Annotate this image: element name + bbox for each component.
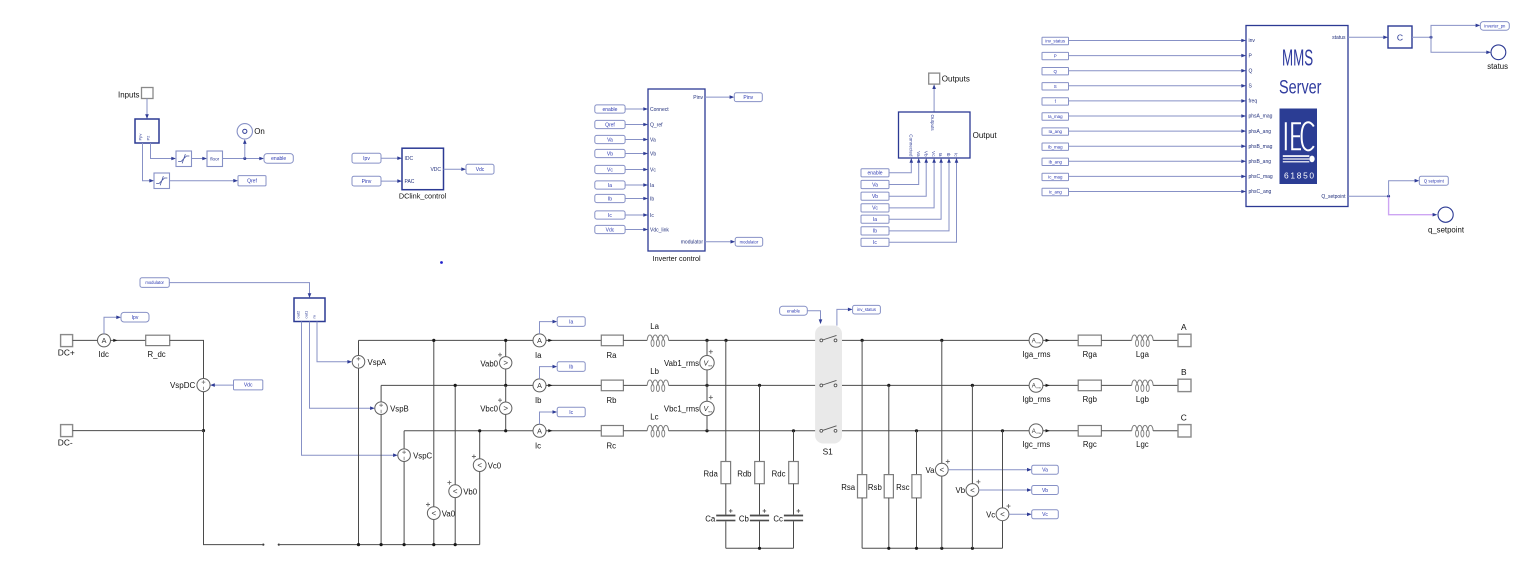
ammeter Ib <box>533 379 546 392</box>
svg-text:Vc: Vc <box>1042 512 1048 518</box>
svg-text:enable: enable <box>867 171 882 177</box>
svg-text:P: P <box>1054 54 1057 59</box>
wire VspC to phase bus <box>403 431 405 449</box>
wire Vb to inverter pin Vb <box>625 153 644 155</box>
node Vc measure tag <box>1032 510 1059 519</box>
svg-text:Rsb: Rsb <box>868 483 883 492</box>
svg-text:rms: rms <box>1036 386 1041 390</box>
terminal C <box>1178 425 1191 437</box>
wire phase A bus <box>359 339 534 341</box>
svg-text:<: < <box>970 486 975 495</box>
svg-text:modulator: modulator <box>681 240 704 246</box>
svg-text:Igb_rms: Igb_rms <box>1022 395 1050 404</box>
wire Va to Output pin <box>889 161 919 184</box>
svg-text:Inverter control: Inverter control <box>653 254 701 263</box>
node Ipv input tag <box>352 153 381 163</box>
wire Va meter to Va tag <box>948 469 1028 471</box>
svg-text:Q setpoint: Q setpoint <box>1424 178 1445 183</box>
svg-text:Va: Va <box>607 137 613 143</box>
svg-text:Lb: Lb <box>650 367 659 376</box>
wire Ia to Ra <box>546 339 601 341</box>
wire Qref to inverter pin Q_ref <box>625 124 644 126</box>
wire DC- to junction <box>73 430 204 432</box>
wire Ia tag branch <box>540 322 554 334</box>
inductor Lgc <box>1132 425 1153 430</box>
wire Vab1_rms branch <box>706 340 708 385</box>
wire floor to enable tag <box>223 158 261 160</box>
wire Rgc to Lgc <box>1101 430 1131 432</box>
svg-text:Ib: Ib <box>873 229 877 235</box>
svg-text:VspDC: VspDC <box>170 381 196 390</box>
terminal status circle <box>1491 45 1506 60</box>
wire Ra to La <box>623 339 647 341</box>
node Ic_ang to MMS tag <box>1042 188 1069 195</box>
terminal DC+ <box>61 335 73 347</box>
wire Pinv to DClink PAC <box>381 180 399 182</box>
node Ipv measure tag <box>121 312 149 322</box>
wire DC+ to Idc <box>73 339 98 341</box>
wire bus to Rda <box>725 340 727 461</box>
svg-text:Rda: Rda <box>703 469 718 478</box>
wire Ic to inverter pin Ic <box>625 214 644 216</box>
svg-text:Ra: Ra <box>607 351 618 360</box>
wire Rc to Lc <box>623 430 647 432</box>
svg-text:Ib: Ib <box>608 196 612 202</box>
node Ib measure tag <box>557 362 585 372</box>
node Va measure tag <box>1032 465 1059 474</box>
resistor Rdc <box>789 462 799 484</box>
svg-text:status: status <box>1487 62 1508 71</box>
svg-text:A: A <box>1032 429 1036 435</box>
wire Inputs block out2 to limiter1 <box>151 143 173 159</box>
node Vdc to VspDC tag <box>234 380 263 390</box>
node Ib_mag to MMS tag <box>1042 143 1069 150</box>
wire Ic to Rc <box>546 430 601 432</box>
wire junction up to On control <box>244 143 246 159</box>
node Ib_ang to MMS tag <box>1042 158 1069 165</box>
wire Igb_rms to Rgb <box>1043 384 1078 386</box>
svg-text:Q: Q <box>1054 69 1058 74</box>
wire Rdc to Cc <box>793 484 795 515</box>
node Ia measure tag <box>557 317 585 327</box>
node Ia_mag to MMS tag <box>1042 113 1069 120</box>
wire Rb to Lb <box>623 384 647 386</box>
capacitor Ca <box>716 515 735 517</box>
svg-text:Server: Server <box>1279 75 1322 98</box>
wire limiter1 to floor <box>192 158 204 160</box>
svg-text:phsB_mag: phsB_mag <box>1249 144 1273 150</box>
wire VspDC to DC- junction <box>203 392 205 431</box>
svg-text:<: < <box>453 487 458 496</box>
wire junction to status terminal <box>1431 37 1488 52</box>
wire S1 status to inv_status tag <box>837 309 849 325</box>
wire Lb to breaker S1 <box>669 384 820 386</box>
breaker S1 pole B <box>820 384 823 387</box>
wire Ib tag branch <box>540 367 554 379</box>
svg-text:MMS: MMS <box>1282 45 1313 71</box>
svg-text:phsA_mag: phsA_mag <box>1249 114 1273 120</box>
terminal A <box>1178 334 1191 346</box>
voltmeter Va0 <box>427 507 440 520</box>
svg-text:Connect: Connect <box>650 107 669 113</box>
wire Rda to Ca <box>725 484 727 515</box>
wire breaker S1 to Igc_rms <box>837 430 1029 432</box>
node S to MMS tag <box>1042 83 1069 90</box>
wire bus to Rdc <box>793 431 795 462</box>
wire Ib_ang to MMS pin phsB_ang <box>1069 160 1243 162</box>
wire DClink VDC out to Vdc tag <box>444 168 463 170</box>
svg-text:Rgb: Rgb <box>1083 395 1098 404</box>
wire S to MMS pin S <box>1069 85 1243 87</box>
resistor Rdb <box>755 462 765 484</box>
svg-text:Vab0: Vab0 <box>480 359 498 368</box>
svg-text:Ic_ang: Ic_ang <box>1049 190 1063 195</box>
svg-text:Rsc: Rsc <box>896 483 910 492</box>
node Vc to Output tag <box>861 204 889 212</box>
svg-text:S: S <box>1054 84 1057 89</box>
svg-text:Inputs: Inputs <box>118 90 140 99</box>
resistor Rsb <box>884 475 893 498</box>
wire Inputs box to Inputs block <box>146 99 148 117</box>
wire C block to junction <box>1412 36 1431 38</box>
svg-text:Vb: Vb <box>956 486 966 495</box>
svg-text:Va: Va <box>872 182 878 188</box>
svg-text:Ca: Ca <box>705 514 716 523</box>
svg-text:C: C <box>1397 32 1403 42</box>
svg-text:enable: enable <box>787 308 801 313</box>
ammeter Iga_rms <box>1029 334 1043 348</box>
block C counter <box>1388 26 1412 48</box>
node Inverter_pn tag <box>1480 22 1509 31</box>
svg-text:q_setpoint: q_setpoint <box>1428 226 1465 235</box>
svg-text:Iga_rms: Iga_rms <box>1022 350 1050 359</box>
svg-text:Q_ref: Q_ref <box>650 122 663 128</box>
terminal Inputs box <box>142 88 154 99</box>
svg-text:DC-: DC- <box>58 437 73 447</box>
node stray blue dot <box>440 261 443 264</box>
svg-text:PAC: PAC <box>405 179 415 185</box>
wire Ia to Output pin <box>889 161 941 219</box>
svg-text:Ipv: Ipv <box>363 156 370 162</box>
svg-text:Vb: Vb <box>650 151 656 157</box>
svg-text:inv: inv <box>1249 38 1256 44</box>
ammeter Ic <box>533 424 546 437</box>
wire R_dc to VspDC <box>170 340 204 378</box>
voltmeter Vab0 <box>500 357 512 369</box>
ammeter Igc_rms <box>1029 424 1043 438</box>
svg-text:R_dc: R_dc <box>148 350 166 359</box>
wire capacitor neutral bus <box>726 547 794 549</box>
wire Rsb to right neutral <box>888 498 890 548</box>
wire Rsa to right neutral <box>861 498 863 548</box>
wire Ia to inverter pin Ia <box>625 184 644 186</box>
wire phase C bus <box>404 430 533 432</box>
svg-text:Vb: Vb <box>1042 488 1048 494</box>
svg-text:Rb: Rb <box>607 396 618 405</box>
wire Ipv to DClink IDC <box>381 157 399 159</box>
block Inverter control <box>648 89 705 251</box>
svg-text:Va: Va <box>926 466 936 475</box>
svg-text:Lgb: Lgb <box>1136 395 1150 404</box>
node Ic measure tag <box>557 407 585 417</box>
wire bus to Va meter <box>941 340 943 548</box>
svg-text:Qref: Qref <box>247 179 257 185</box>
svg-text:Va0: Va0 <box>442 510 456 519</box>
wire Ic to Output pin <box>889 161 957 242</box>
limiter block 1 (hard limiter) <box>176 151 192 167</box>
inductor Lc <box>647 425 668 430</box>
resistor Rgb <box>1078 380 1101 391</box>
svg-text:VspA: VspA <box>368 358 387 367</box>
svg-text:Ia: Ia <box>535 351 542 360</box>
wire bus to Rdb <box>759 385 761 461</box>
source VspA <box>352 356 365 369</box>
wire Cc to capacitor bus <box>793 521 795 548</box>
svg-text:Outputs: Outputs <box>930 115 935 132</box>
svg-text:Vdc: Vdc <box>606 227 615 233</box>
wire modulator tag to modulator block <box>169 283 309 295</box>
wire modulator to VspB <box>310 322 372 409</box>
ammeter Idc <box>98 334 111 347</box>
wire Igc_rms to Rgc <box>1043 430 1078 432</box>
terminal B <box>1178 379 1191 391</box>
wire Vbc1_rms branch <box>706 385 708 430</box>
svg-text:Vb: Vb <box>872 194 878 200</box>
svg-text:Ib_ang: Ib_ang <box>1049 159 1063 164</box>
wire Ib_mag to MMS pin phsB_mag <box>1069 145 1243 147</box>
wire junction to Inverter_pn tag <box>1431 25 1477 37</box>
resistor Rsc <box>912 475 921 498</box>
svg-text:Connected: Connected <box>908 134 913 157</box>
wire modulator to VspA <box>317 322 349 362</box>
breaker S1 body <box>815 326 842 444</box>
wire VspA to phase bus <box>358 340 360 355</box>
svg-text:Idc: Idc <box>99 350 110 359</box>
svg-text:Ib: Ib <box>569 364 573 370</box>
wire VspA to neutral <box>358 368 360 544</box>
node Pinv output tag <box>734 93 762 102</box>
svg-text:Vb: Vb <box>607 151 613 157</box>
svg-text:A: A <box>1032 384 1036 390</box>
svg-text:Q: Q <box>1249 68 1253 74</box>
svg-text:Ic: Ic <box>873 240 877 246</box>
inductor Lga <box>1132 335 1153 340</box>
junction on enable wire <box>243 157 246 160</box>
node Vc to inverter tag <box>595 165 625 173</box>
wire La to breaker S1 <box>669 339 820 341</box>
wire bus to Rsc <box>916 431 918 475</box>
wire VspC to neutral <box>403 462 405 545</box>
svg-text:Lgc: Lgc <box>1136 440 1149 449</box>
svg-text:DC+: DC+ <box>58 347 75 357</box>
svg-text:DClink_control: DClink_control <box>399 192 447 201</box>
svg-text:Ib: Ib <box>535 396 542 405</box>
wire Ib to inverter pin Ib <box>625 198 644 200</box>
icon IEC 61850 logo <box>1280 109 1318 185</box>
svg-text:Vb: Vb <box>923 151 928 157</box>
svg-text:Vab1_rms: Vab1_rms <box>664 359 699 368</box>
svg-text:Ia_mag: Ia_mag <box>1048 114 1063 119</box>
voltmeter Vab1_rms <box>700 356 714 370</box>
block DClink_control <box>402 148 444 190</box>
svg-text:phsB_ang: phsB_ang <box>1249 159 1272 165</box>
wire Ia_ang to MMS pin phsA_ang <box>1069 130 1243 132</box>
svg-text:out2: out2 <box>295 310 300 319</box>
wire Vdc tag to VspDC <box>214 384 234 386</box>
wire bus to Vc meter <box>1002 431 1004 549</box>
wire Rdb to Cb <box>759 484 761 515</box>
svg-text:Vbc1_rms: Vbc1_rms <box>664 405 699 414</box>
svg-text:On: On <box>254 127 265 136</box>
node f to MMS tag <box>1042 98 1069 105</box>
wire junction to q_setpoint terminal (purple) <box>1389 197 1434 215</box>
node modulator output tag <box>735 237 763 246</box>
wire Ic tag branch <box>540 412 554 424</box>
svg-text:status: status <box>1332 35 1346 41</box>
wire Q to MMS pin Q <box>1069 70 1243 72</box>
node Vdc to inverter tag <box>595 225 625 233</box>
wire Vb meter to Vb tag <box>979 489 1028 491</box>
svg-text:Ic: Ic <box>569 410 573 416</box>
resistor Rsa <box>858 475 867 498</box>
node Vdc output tag <box>466 164 494 174</box>
node Va to inverter tag <box>595 135 625 143</box>
svg-text:modulator: modulator <box>145 280 164 285</box>
wire enable to Output pin <box>889 161 911 172</box>
node Ib to inverter tag <box>595 194 625 202</box>
svg-text:B: B <box>1181 367 1187 377</box>
svg-text:Igc_rms: Igc_rms <box>1022 440 1050 449</box>
node Vb to Output tag <box>861 192 889 200</box>
svg-text:<: < <box>939 466 944 475</box>
wire neutral bus left segment <box>278 544 280 546</box>
svg-text:P2: P2 <box>145 135 150 141</box>
svg-text:enable: enable <box>602 107 617 113</box>
wire inv_status to MMS pin inv <box>1069 40 1243 42</box>
svg-text:Ipv: Ipv <box>132 315 139 321</box>
wire P to MMS pin P <box>1069 55 1243 57</box>
wire Ic_mag to MMS pin phsC_mag <box>1069 175 1243 177</box>
wire Iga_rms to Rga <box>1043 339 1078 341</box>
resistor Ra <box>601 335 623 346</box>
wire Ca to capacitor bus <box>725 521 727 548</box>
wire bus to Rsa <box>861 340 863 474</box>
block modulator <box>294 298 325 322</box>
svg-text:Ia: Ia <box>938 153 943 157</box>
wire Vc to inverter pin Vc <box>625 169 644 171</box>
svg-text:Rdc: Rdc <box>772 469 786 478</box>
svg-text:Inverter_pn: Inverter_pn <box>1484 23 1506 28</box>
svg-text:Vc0: Vc0 <box>488 462 502 471</box>
wire Output block to Outputs box <box>933 88 935 112</box>
source VspC <box>398 449 411 462</box>
svg-text:rms: rms <box>708 364 713 368</box>
wire limiter2 to Qref tag <box>170 180 235 182</box>
node Ic to Output tag <box>861 238 889 246</box>
capacitor Cb <box>750 515 769 517</box>
wire Idc to R_dc <box>111 339 146 341</box>
resistor R_dc <box>146 335 170 345</box>
wire Ib to Output pin <box>889 161 949 231</box>
svg-text:Ib: Ib <box>946 153 951 157</box>
terminal q_setpoint circle <box>1438 207 1453 222</box>
svg-text:VspB: VspB <box>390 405 409 414</box>
node Ia to inverter tag <box>595 181 625 189</box>
wire Vdc to inverter pin Vdc_link <box>625 229 644 231</box>
svg-text:Pinv: Pinv <box>743 95 753 101</box>
inductor La <box>647 335 668 340</box>
node Va to Output tag <box>861 180 889 188</box>
block floor <box>207 151 223 167</box>
svg-text:Rsa: Rsa <box>841 483 856 492</box>
svg-text:Ib: Ib <box>650 196 654 202</box>
wire bus to Vb meter <box>971 385 973 548</box>
svg-text:phsC_ang: phsC_ang <box>1249 189 1272 195</box>
svg-text:out1: out1 <box>303 310 308 319</box>
wire Rsc to right neutral <box>916 498 918 548</box>
svg-text:Ia: Ia <box>873 217 877 223</box>
voltmeter Va <box>935 463 948 476</box>
inductor Lb <box>647 380 668 385</box>
wire f to MMS pin freq <box>1069 100 1243 102</box>
wire Vc to Output pin <box>889 161 934 208</box>
svg-text:Outputs: Outputs <box>942 74 970 83</box>
wire inverter modulator out <box>705 241 732 243</box>
svg-text:>: > <box>503 404 508 413</box>
wire Va to inverter pin Va <box>625 139 644 141</box>
wire Vab0 branch <box>505 340 507 385</box>
terminal Outputs box <box>929 73 940 84</box>
node Ia to Output tag <box>861 215 889 223</box>
wire Inputs block out1 to limiter2 <box>143 143 151 181</box>
svg-text:rms: rms <box>1036 431 1041 435</box>
wire Va0 branch <box>433 340 435 544</box>
wire MMS Q_setpoint out <box>1348 195 1389 197</box>
wire MMS status to C block <box>1348 36 1385 38</box>
svg-text:Ppv: Ppv <box>137 134 142 141</box>
breaker S1 pole C <box>820 429 823 432</box>
wire right neutral bus <box>862 547 1002 549</box>
svg-text:Va: Va <box>650 137 656 143</box>
wire Vb to Output pin <box>889 161 926 196</box>
wire Ic_ang to MMS pin phsC_ang <box>1069 191 1243 193</box>
svg-text:61850: 61850 <box>1284 171 1316 181</box>
resistor Rda <box>721 462 731 484</box>
svg-text:rms: rms <box>1036 341 1041 345</box>
svg-text:Vdc: Vdc <box>244 383 253 389</box>
svg-text:C: C <box>1181 413 1187 423</box>
svg-text:Ia: Ia <box>569 319 573 325</box>
wire junction to Q setpoint tag <box>1389 181 1416 197</box>
voltmeter Vbc0 <box>500 402 512 414</box>
svg-text:Rgc: Rgc <box>1083 440 1097 449</box>
svg-text:A: A <box>102 336 107 345</box>
resistor Rc <box>601 426 623 437</box>
wire DC bus down to neutral <box>204 431 263 545</box>
svg-text:enable: enable <box>271 156 286 162</box>
svg-text:Vc: Vc <box>986 511 995 520</box>
block Inputs reader <box>135 119 159 143</box>
wire bus to Rsb <box>888 385 890 474</box>
inductor Lgb <box>1132 380 1153 385</box>
svg-text:Ic: Ic <box>650 213 654 219</box>
wire Lgc to terminal C <box>1153 430 1178 432</box>
svg-text:Vbc0: Vbc0 <box>480 405 498 414</box>
svg-text:<: < <box>431 509 436 518</box>
wire Lgb to terminal B <box>1153 384 1178 386</box>
resistor Rga <box>1078 335 1101 346</box>
voltmeter Vbc1_rms <box>700 401 714 415</box>
